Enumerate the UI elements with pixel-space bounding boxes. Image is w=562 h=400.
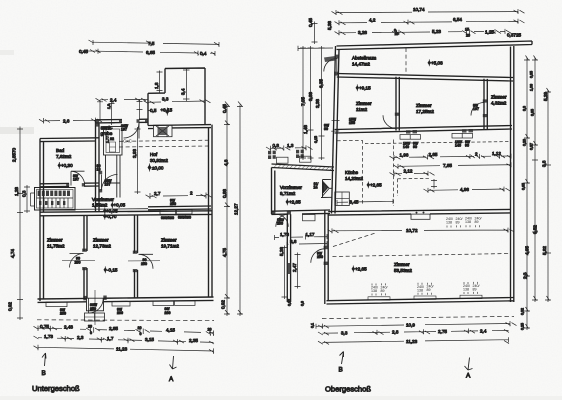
svg-text:3,3: 3,3: [162, 97, 169, 102]
svg-text:20: 20: [88, 325, 92, 329]
svg-text:2,3: 2,3: [77, 335, 84, 340]
svg-text:Vorzimmer: Vorzimmer: [280, 185, 302, 190]
svg-text:4,96: 4,96: [460, 187, 469, 192]
svg-text:2,4: 2,4: [480, 328, 487, 333]
svg-text:1,3: 1,3: [287, 143, 294, 148]
svg-text:B: B: [339, 367, 343, 374]
svg-text:6,35: 6,35: [319, 79, 324, 88]
svg-text:3,26: 3,26: [358, 30, 367, 35]
svg-text:+2,65: +2,65: [355, 267, 367, 272]
svg-text:1,25: 1,25: [485, 29, 494, 34]
svg-text:2,85: 2,85: [109, 326, 118, 331]
svg-text:30,92m2: 30,92m2: [150, 158, 168, 163]
svg-text:10,74: 10,74: [413, 7, 425, 12]
svg-text:7,62m2: 7,62m2: [56, 154, 72, 159]
svg-text:11,75m2: 11,75m2: [47, 244, 65, 249]
svg-text:4,32m2: 4,32m2: [491, 101, 507, 106]
svg-text:138: 138: [417, 288, 423, 292]
svg-text:0,23: 0,23: [523, 139, 527, 146]
svg-text:1,73: 1,73: [44, 334, 53, 339]
svg-text:260: 260: [60, 312, 66, 316]
svg-text:1,54m2: 1,54m2: [92, 203, 108, 208]
svg-text:0,37: 0,37: [530, 143, 534, 150]
svg-text:155: 155: [349, 121, 355, 125]
svg-text:1,12: 1,12: [492, 151, 501, 156]
svg-text:5,26: 5,26: [279, 247, 284, 256]
svg-text:080/080: 080/080: [161, 216, 174, 220]
svg-text:3,15: 3,15: [145, 337, 154, 342]
svg-text:1,8: 1,8: [107, 104, 111, 109]
svg-text:0,15: 0,15: [314, 136, 318, 143]
svg-text:080/080: 080/080: [178, 216, 191, 220]
svg-text:4,95: 4,95: [525, 246, 530, 255]
svg-text:Zimmer: Zimmer: [416, 103, 432, 108]
svg-text:+0,30: +0,30: [61, 163, 73, 168]
svg-text:2,47: 2,47: [292, 263, 297, 272]
svg-text:2,6: 2,6: [63, 118, 70, 123]
svg-text:2,7: 2,7: [154, 191, 161, 196]
svg-text:4,75: 4,75: [222, 248, 227, 257]
svg-text:260: 260: [117, 311, 123, 315]
svg-text:Zimmer: Zimmer: [93, 238, 109, 243]
svg-text:grube: grube: [101, 131, 113, 136]
svg-text:2,12: 2,12: [404, 169, 413, 174]
svg-text:Vorzimmer: Vorzimmer: [92, 197, 114, 202]
svg-text:0,3725: 0,3725: [507, 32, 521, 37]
svg-text:12,73m2: 12,73m2: [93, 244, 111, 249]
svg-text:0,45: 0,45: [79, 49, 88, 54]
svg-text:A: A: [169, 376, 174, 383]
svg-text:90: 90: [465, 143, 469, 147]
svg-text:2,8570: 2,8570: [12, 148, 17, 162]
svg-text:1,73: 1,73: [280, 232, 289, 237]
svg-text:0: 0: [140, 332, 142, 336]
svg-text:20: 20: [466, 33, 470, 37]
svg-text:2,3: 2,3: [523, 272, 528, 279]
svg-text:4,2: 4,2: [369, 18, 376, 23]
svg-text:19,71m2: 19,71m2: [161, 244, 179, 249]
svg-text:0,92: 0,92: [8, 302, 13, 311]
svg-text:0,5: 0,5: [150, 108, 157, 113]
svg-text:2,75: 2,75: [438, 329, 447, 334]
svg-text:Zimmer: Zimmer: [394, 262, 410, 267]
svg-text:89: 89: [456, 220, 460, 224]
svg-text:10,9: 10,9: [406, 322, 415, 327]
svg-text:Zimmer: Zimmer: [491, 95, 507, 100]
svg-text:250: 250: [141, 262, 147, 266]
svg-text:138: 138: [446, 221, 452, 225]
svg-text:0,35: 0,35: [530, 71, 534, 78]
svg-text:+2,65: +2,65: [289, 200, 301, 205]
svg-text:Bad: Bad: [56, 148, 65, 153]
svg-text:20: 20: [138, 326, 142, 330]
svg-text:0,1: 0,1: [311, 323, 315, 328]
svg-text:5,82: 5,82: [542, 246, 547, 255]
svg-text:3,33: 3,33: [308, 92, 313, 101]
svg-text:0,3: 0,3: [22, 190, 27, 197]
svg-text:15: 15: [465, 28, 469, 32]
svg-text:3,45: 3,45: [350, 199, 359, 204]
svg-text:0,4: 0,4: [200, 51, 207, 56]
svg-text:1,46: 1,46: [303, 125, 308, 134]
svg-text:17,25m2: 17,25m2: [416, 109, 434, 114]
svg-text:2,48: 2,48: [64, 325, 73, 330]
svg-text:260: 260: [165, 311, 171, 315]
svg-text:9,52: 9,52: [533, 225, 538, 234]
svg-text:0,65: 0,65: [522, 183, 526, 190]
svg-text:Zimmer: Zimmer: [356, 101, 372, 106]
svg-text:±0,00: ±0,00: [152, 166, 164, 171]
svg-text:7,5: 7,5: [148, 41, 155, 46]
svg-text:53,53m2: 53,53m2: [394, 268, 412, 273]
svg-text:197: 197: [473, 107, 479, 111]
svg-text:14,47m2: 14,47m2: [352, 62, 370, 67]
svg-text:A: A: [466, 373, 471, 380]
svg-text:Zimmer: Zimmer: [47, 238, 63, 243]
svg-text:11,23: 11,23: [406, 339, 418, 344]
svg-text:20: 20: [208, 328, 212, 332]
svg-text:89: 89: [473, 287, 477, 291]
svg-text:138: 138: [463, 288, 469, 292]
svg-text:0,45: 0,45: [308, 18, 313, 27]
svg-text:+9,15: +9,15: [359, 86, 371, 91]
svg-text:0,45: 0,45: [222, 104, 227, 113]
svg-text:140: 140: [403, 145, 409, 149]
svg-text:250: 250: [75, 261, 81, 265]
svg-text:250: 250: [277, 221, 283, 225]
svg-text:24: 24: [314, 185, 318, 189]
svg-text:1,8: 1,8: [154, 82, 159, 89]
svg-text:90: 90: [324, 127, 328, 131]
svg-text:89: 89: [475, 220, 479, 224]
svg-text:0,8: 0,8: [273, 143, 280, 148]
svg-text:1,7: 1,7: [107, 336, 114, 341]
svg-text:18: 18: [97, 168, 101, 172]
svg-text:Untergeschoß: Untergeschoß: [32, 384, 80, 393]
svg-text:138: 138: [371, 289, 377, 293]
svg-text:5,23: 5,23: [432, 29, 441, 34]
svg-text:Zimmer: Zimmer: [161, 238, 177, 243]
svg-text:11,23: 11,23: [116, 346, 128, 351]
svg-text:0,9: 0,9: [301, 301, 305, 306]
svg-text:14,23m2: 14,23m2: [345, 176, 363, 181]
svg-text:0,88: 0,88: [222, 189, 227, 198]
svg-text:5,29: 5,29: [543, 92, 548, 101]
svg-text:0,32: 0,32: [521, 308, 525, 315]
svg-text:10,72: 10,72: [406, 228, 418, 233]
svg-text:2,4: 2,4: [110, 97, 117, 102]
svg-text:Abstellraum: Abstellraum: [352, 56, 376, 61]
svg-text:90: 90: [413, 145, 417, 149]
svg-text:3,4: 3,4: [181, 88, 186, 95]
svg-text:2,35: 2,35: [189, 338, 198, 343]
svg-text:1,28: 1,28: [14, 187, 19, 196]
svg-text:82: 82: [110, 137, 114, 141]
svg-text:+2,65: +2,65: [370, 183, 382, 188]
svg-text:1,17: 1,17: [306, 232, 315, 237]
svg-text:250: 250: [170, 202, 176, 206]
svg-text:15: 15: [395, 32, 399, 36]
svg-text:3,8: 3,8: [542, 160, 547, 167]
svg-text:5,38: 5,38: [327, 21, 332, 30]
svg-text:3,3: 3,3: [341, 330, 348, 335]
svg-text:+5,08: +5,08: [431, 61, 443, 66]
svg-text:Obergeschoß: Obergeschoß: [325, 385, 371, 394]
svg-text:3,85: 3,85: [531, 109, 535, 116]
svg-text:3,3: 3,3: [523, 106, 527, 111]
svg-text:0,75: 0,75: [40, 324, 49, 329]
svg-text:2: 2: [190, 191, 193, 196]
svg-text:7,85: 7,85: [443, 163, 452, 168]
svg-text:4,74: 4,74: [10, 249, 15, 258]
svg-text:1,06: 1,06: [530, 84, 534, 91]
svg-text:1,77: 1,77: [106, 136, 110, 143]
svg-text:138: 138: [465, 220, 471, 224]
svg-text:197: 197: [73, 177, 79, 181]
svg-text:197: 197: [105, 182, 111, 186]
svg-text:9,71m2: 9,71m2: [280, 191, 296, 196]
svg-text:CxC: CxC: [123, 139, 133, 144]
svg-text:3,93: 3,93: [132, 149, 137, 158]
svg-text:89: 89: [427, 288, 431, 292]
svg-text:2: 2: [475, 151, 478, 156]
svg-text:6,65: 6,65: [146, 50, 155, 55]
svg-text:1,96: 1,96: [400, 152, 409, 157]
svg-text:0,25: 0,25: [521, 323, 525, 330]
svg-text:0,92: 0,92: [221, 300, 226, 309]
svg-text:250: 250: [317, 255, 323, 259]
svg-text:89: 89: [381, 289, 385, 293]
svg-text:0,32: 0,32: [288, 299, 292, 306]
svg-text:2,8: 2,8: [392, 330, 399, 335]
svg-text:+0,05: +0,05: [114, 203, 126, 208]
svg-text:Küche: Küche: [345, 170, 358, 175]
svg-text:B: B: [42, 370, 46, 377]
svg-text:6,54: 6,54: [453, 17, 462, 22]
svg-text:140: 140: [455, 144, 461, 148]
svg-text:3,6: 3,6: [290, 239, 297, 244]
svg-text:Hof: Hof: [150, 152, 158, 157]
svg-text:2,65: 2,65: [429, 152, 438, 157]
svg-text:250: 250: [90, 307, 96, 311]
svg-text:7,05: 7,05: [301, 97, 306, 106]
svg-text:0: 0: [90, 331, 92, 335]
svg-text:3,38: 3,38: [315, 99, 320, 108]
svg-text:12,27: 12,27: [234, 203, 239, 215]
svg-text:4,8: 4,8: [224, 159, 229, 166]
svg-text:11m2: 11m2: [356, 107, 368, 112]
svg-text:-0,15: -0,15: [107, 268, 118, 273]
svg-text:4,15: 4,15: [166, 328, 175, 333]
